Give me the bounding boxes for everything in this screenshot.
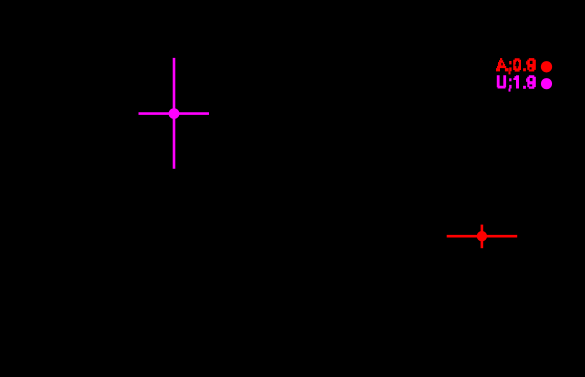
- node: magenta data point: [169, 108, 180, 119]
- glyph 9 (line 2): [527, 75, 536, 88]
- wire: red horizontal error bar: [447, 235, 518, 238]
- glyph U: [497, 75, 506, 88]
- legend text U;1.9: [497, 75, 536, 91]
- legend marker U: [541, 78, 552, 89]
- wire: magenta horizontal error bar: [139, 112, 210, 115]
- wire: magenta vertical error bar: [173, 58, 176, 169]
- glyph . (line 2): [523, 86, 526, 89]
- legend text A;0.9: [496, 58, 536, 74]
- glyph . (line 1): [523, 68, 526, 71]
- glyph 9 (line 1): [527, 58, 536, 71]
- node: red data point: [477, 231, 487, 241]
- wire: red vertical error bar: [481, 225, 484, 249]
- glyph ; (line 2): [509, 78, 511, 81]
- glyph 1: [516, 75, 519, 88]
- glyph 0: [513, 58, 521, 71]
- glyph A: [500, 58, 502, 60]
- legend marker A: [541, 61, 552, 72]
- glyph ; (line 1): [509, 61, 511, 64]
